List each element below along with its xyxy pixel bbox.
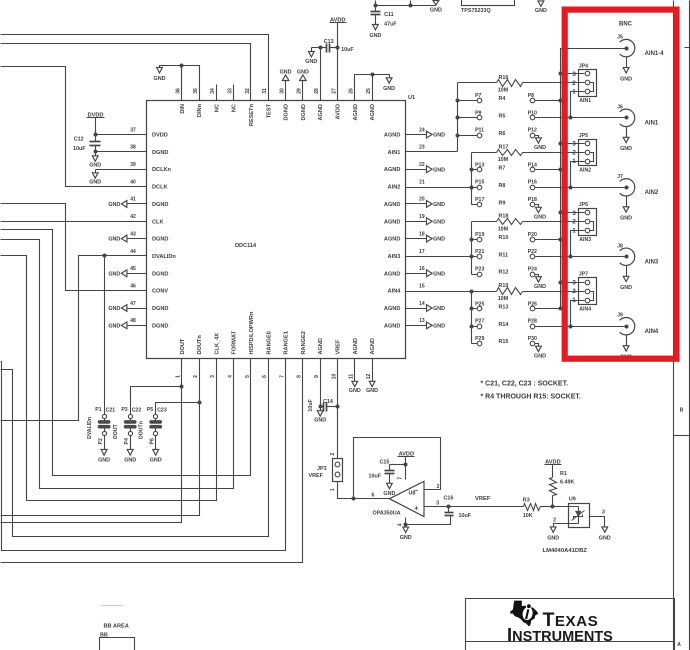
svg-text:GND: GND [620,216,632,222]
node JP pin1 join [569,116,573,120]
wire DOUT branch to P3 [131,387,182,415]
svg-text:DCLKn: DCLKn [152,167,172,173]
power net AVDD at pin 27 [330,17,347,100]
svg-text:35: 35 [193,88,199,94]
svg-text:DOUTn: DOUTn [197,335,203,355]
svg-text:AGND: AGND [384,271,400,277]
svg-text:10uF: 10uF [369,473,382,479]
resistor R7 socket label [499,166,506,172]
wire AIN1 pin 23 to divider [406,151,458,153]
wire C16 bottom to pin4 [406,519,451,525]
svg-text:AIN1: AIN1 [645,121,659,127]
ground C15 [383,483,395,497]
svg-text:47: 47 [130,301,136,307]
wire JP7 pin3 to bus [561,282,585,284]
resistor R19 10M [472,283,585,302]
ground J7 [620,197,632,222]
svg-text:18: 18 [419,231,425,237]
svg-text:DGND: DGND [152,306,168,312]
ground P24 [534,275,546,291]
svg-text:OPA350UA: OPA350UA [373,511,401,517]
svg-text:BNC: BNC [619,22,633,28]
connector P8 [528,93,535,103]
svg-text:R18: R18 [499,214,509,220]
svg-text:GND: GND [620,76,632,82]
node DVALIDn branch P1 [103,254,107,258]
svg-text:U9: U9 [569,497,576,503]
wire P20 to input bus [535,239,561,241]
svg-text:GND: GND [534,354,546,360]
svg-text:GND: GND [108,237,120,243]
node DOUT branch [180,385,184,389]
resistor R8 socket label [499,183,506,189]
svg-text:CLK: CLK [152,219,164,225]
resistor R5 socket label [499,113,506,119]
svg-text:6: 6 [262,375,268,378]
wire pin 28 AGND to C13 [312,48,321,101]
svg-text:29: 29 [297,88,303,94]
svg-text:GND: GND [297,69,309,75]
wire JP4 pin1 to BNC row [571,92,585,118]
svg-text:20: 20 [419,197,425,203]
svg-text:AIN2: AIN2 [645,190,659,196]
svg-text:TPS75233Q: TPS75233Q [461,8,491,14]
svg-text:25: 25 [366,88,372,94]
capacitor C11 47uF [371,6,398,28]
svg-text:DOUT: DOUT [180,338,186,354]
ground U1 right AGND row 5 [406,218,446,226]
svg-text:33: 33 [228,88,234,94]
svg-text:DGND: DGND [152,323,168,329]
svg-text:GND: GND [534,145,546,151]
svg-text:GND: GND [383,491,395,497]
wire HISPD/LOPWRn pin 5 loop [1,230,251,476]
svg-text:39: 39 [130,162,136,168]
svg-text:AIN1: AIN1 [388,150,401,156]
ground J8 [620,266,632,291]
svg-text:DGND: DGND [152,150,168,156]
wire output pin 3 to VREF node [425,501,449,507]
wire P26 to input bus [535,308,561,310]
svg-text:2: 2 [553,518,556,524]
svg-text:J7: J7 [617,174,623,180]
connector P1 / capacitor C21 socket [87,407,115,445]
svg-text:2: 2 [572,219,576,226]
svg-text:GND: GND [599,536,611,542]
node AVDD/C15 [404,463,408,467]
wire U9 pin3 to ground [590,510,606,527]
svg-text:GND: GND [108,323,120,329]
connector P18 [528,197,537,207]
node JP pin1 join [569,255,573,259]
resistor R14 socket label [499,322,509,328]
svg-text:R19: R19 [499,283,509,289]
svg-text:26: 26 [349,88,355,94]
svg-text:1: 1 [572,228,576,235]
svg-text:VREF: VREF [336,339,342,355]
box BB [100,632,135,650]
border zone letter B [680,408,684,414]
svg-text:32: 32 [245,88,251,94]
ground U1 right AGND row 6 [406,235,446,243]
wire AIN1 net vertical [457,83,459,152]
node C13 left [319,46,323,50]
svg-text:47uF: 47uF [384,21,397,27]
svg-text:42: 42 [130,214,136,220]
svg-text:C21: C21 [106,407,116,413]
svg-text:P23: P23 [475,267,484,273]
svg-text:GND: GND [369,33,381,39]
svg-text:AIN3: AIN3 [645,260,659,266]
wire TEST pin 31 to left edge [1,35,269,101]
svg-text:GND: GND [89,179,101,185]
svg-text:10uF: 10uF [73,146,86,152]
svg-text:AIN2: AIN2 [388,185,401,191]
svg-text:2: 2 [572,149,576,156]
ground P12 [534,136,546,152]
svg-text:44: 44 [130,249,136,255]
ground U1 right AGND row 2 [406,166,446,174]
svg-text:GND: GND [400,535,412,541]
resistor R10 socket label [499,235,509,241]
wire JP5 pin1 to BNC row [571,162,585,188]
ground P6 [150,436,162,464]
svg-text:LM4040A41DBZ: LM4040A41DBZ [543,548,588,554]
title block frame [466,599,675,650]
capacitor C15 10uF [369,460,406,484]
wire RANGE0 pin 6 loop [1,359,269,537]
svg-text:19: 19 [419,214,425,220]
svg-text:10uF: 10uF [341,47,354,53]
svg-text:J9: J9 [617,313,623,319]
svg-text:GND: GND [433,219,445,225]
svg-text:VREF: VREF [309,473,324,479]
svg-text:GND: GND [280,69,292,75]
svg-text:FORMAT: FORMAT [232,330,238,354]
wire feedback loop [354,438,441,499]
wire P8 to input bus [535,100,561,102]
label BB AREA [104,624,129,630]
svg-text:GND: GND [433,237,445,243]
pin 34 NC stub [216,85,218,101]
wire JP3 pin1 to opamp [338,482,390,499]
svg-text:R15: R15 [499,339,509,345]
ground pin 11 AGND [349,359,361,394]
wire VREF pin 10 to JP3 [337,359,339,457]
ground pin 29 DGND [297,69,309,100]
svg-text:GND: GND [433,167,445,173]
svg-text:10M: 10M [498,157,509,163]
ground pin 12 AGND [366,359,378,394]
svg-text:RANGE0: RANGE0 [266,331,272,354]
svg-text:C16: C16 [444,496,454,502]
node P9 [456,116,460,120]
svg-text:AGND: AGND [318,104,324,120]
ground U1 right AGND row 10 [406,305,446,313]
svg-text:GND: GND [98,458,110,464]
svg-text:R5: R5 [499,113,506,119]
svg-text:AGND: AGND [384,323,400,329]
svg-text:21: 21 [419,179,425,185]
resistor R17 10M [472,144,585,163]
op-amp U8 OPA350UA [372,481,425,516]
svg-text:R13: R13 [499,304,509,310]
svg-text:16: 16 [419,266,425,272]
note sockets C21-C23 [481,381,569,388]
logo Texas Instruments [507,601,613,646]
svg-text:AGND: AGND [318,338,324,354]
svg-text:10: 10 [331,374,337,380]
svg-text:R12: R12 [499,270,509,276]
ground P18 [534,205,546,221]
resistor R9 socket label [499,200,506,206]
connector P15 [472,180,485,190]
wire JP4 pin3 to bus [561,73,585,75]
svg-text:DINn: DINn [197,103,203,117]
svg-text:3: 3 [602,510,605,516]
wire VREF to R3 [449,496,524,506]
connector P22 [528,249,537,259]
connector J5 BNC AIN1-4 [617,35,664,57]
power net AVDD opamp [398,452,415,465]
svg-text:23: 23 [419,145,425,151]
svg-text:GND: GND [430,7,442,13]
wire DCLKn pin 39 [96,169,147,171]
connector P24 [528,267,537,277]
svg-text:C12: C12 [74,137,84,143]
ground J9 [620,335,632,361]
wire AIN2 net vertical [471,153,473,205]
svg-text:AIN1-4: AIN1-4 [645,51,665,57]
svg-text:36: 36 [176,88,182,94]
svg-text:GND: GND [383,86,395,92]
wire AIN3 pin 17 to divider [406,256,472,258]
svg-text:U1: U1 [408,95,415,101]
node C11 tap [374,4,378,8]
svg-text:DOUT: DOUT [113,423,119,439]
ground pin 43 DGND [108,235,146,243]
svg-text:1: 1 [330,488,336,491]
ground C11 [369,25,381,40]
svg-text:10uF: 10uF [308,399,314,412]
wire DVDD to pin 37 [96,134,147,136]
svg-text:J8: J8 [617,243,623,249]
node JP pin1 join [569,186,573,190]
svg-text:GND: GND [108,202,120,208]
svg-text:37: 37 [130,127,136,133]
svg-text:A: A [677,642,681,648]
svg-text:R7: R7 [499,166,506,172]
shunt reference U9 LM4040A41DBZ [553,497,590,528]
wire RESETn pin 32 to left edge [1,44,251,101]
svg-text:6.49K: 6.49K [560,480,574,486]
U1 pin name labels [152,103,401,354]
svg-text:C22: C22 [132,407,142,413]
svg-text:3: 3 [436,501,439,507]
svg-text:AGND: AGND [353,104,359,120]
wire AIN4 net vertical [471,292,473,344]
svg-text:GND: GND [108,306,120,312]
svg-text:P5: P5 [147,407,153,413]
svg-text:AGND: AGND [384,133,400,139]
svg-text:GND: GND [534,215,546,221]
U1 pin numbers [130,88,425,379]
svg-text:R10: R10 [499,235,509,241]
svg-text:JP7: JP7 [579,272,588,278]
capacitor C12 10uF [73,135,101,152]
svg-text:10M: 10M [498,227,509,233]
ground C13 left [305,48,317,66]
svg-text:GND: GND [366,388,378,394]
page border right [674,1,690,650]
resistor R1 6.49K [550,471,575,506]
node C13 right / AVDD [336,46,340,50]
node pin38 [94,150,98,154]
wire DCLK pin 40 to left edge [1,67,147,187]
svg-text:R8: R8 [499,183,506,189]
op IC U1 DDC114 body [147,95,416,359]
svg-text:GND: GND [154,76,166,82]
wire pin 9 AGND to C14 [320,359,322,407]
wire AIN4 pin 15 to divider [406,291,472,293]
node AIN4 R19 junction [470,290,474,294]
svg-text:DOUTn: DOUTn [139,421,145,439]
wire AIN2 pin 21 to divider [406,187,472,189]
svg-text:48: 48 [130,318,136,324]
svg-text:34: 34 [210,88,216,94]
svg-text:3: 3 [572,71,576,78]
wire CLK_4X pin 3 loop [1,256,217,501]
svg-text:3: 3 [210,375,216,378]
wire DGND pin 38 [96,151,147,153]
ground P4 [124,436,136,464]
svg-text:NC: NC [214,104,220,112]
svg-text:GND: GND [433,271,445,277]
svg-text:AGND: AGND [384,219,400,225]
svg-text:10M: 10M [498,88,509,94]
svg-text:R11: R11 [499,252,509,258]
connector P19 [472,232,485,242]
node C14 left [319,405,323,409]
capacitor C13 10uF [321,39,355,53]
svg-text:J5: J5 [617,35,623,41]
svg-text:28: 28 [314,88,320,94]
label pin 2 inverting [437,484,440,490]
svg-text:2: 2 [437,484,440,490]
svg-text:P1: P1 [95,407,101,413]
svg-text:R9: R9 [499,200,506,206]
node P11 [456,134,460,138]
svg-text:TEST: TEST [266,103,272,118]
ground DCLKn [89,170,101,186]
node P7 [456,99,460,103]
svg-text:30: 30 [279,88,285,94]
node rail [409,4,413,8]
svg-text:DCLK: DCLK [152,185,168,191]
wire DVALIDn pin 44 [1,256,147,421]
connector P21 [472,249,485,259]
svg-text:R16: R16 [499,75,509,81]
svg-text:4: 4 [397,523,403,526]
svg-text:P2: P2 [98,438,104,444]
svg-text:GND: GND [433,323,445,329]
ground pin 30 DGND [280,69,292,100]
svg-text:15: 15 [419,283,425,289]
node bus P14 [559,168,563,172]
svg-text:4: 4 [228,375,234,378]
wire JP5 pin3 to bus [561,143,585,145]
svg-text:GND: GND [547,536,559,542]
svg-text:45: 45 [130,266,136,272]
power net DVDD label [87,113,105,135]
regulator U10 TPS75233Q body [461,0,515,14]
node C14 right on VREF [336,405,340,409]
connector P16 [528,180,537,190]
connector J8 BNC AIN3 [617,243,659,265]
connector P11 [458,128,485,138]
svg-text:AGND: AGND [384,306,400,312]
svg-text:R3: R3 [523,498,530,504]
svg-text:P24: P24 [528,267,537,273]
wire AIN3 net vertical [471,222,473,275]
svg-text:DVDD: DVDD [152,133,168,139]
svg-text:* C21, C22, C23 : SOCKET.: * C21, C22, C23 : SOCKET. [481,381,569,388]
ground C12 [89,152,101,169]
node pin37/C12 [94,133,98,137]
border zone tick mid [674,435,690,437]
capacitor C16 10uF [444,496,472,520]
connector P25 [472,301,485,311]
ground DIN/DINn [154,68,166,82]
svg-text:C13: C13 [324,39,334,45]
node DIN [180,64,184,68]
resistor R15 socket label [499,339,509,345]
node JP pin1 join [569,325,573,329]
svg-text:31: 31 [262,88,268,94]
wire pin 7 supply [397,465,405,480]
resistor R12 socket label [499,270,509,276]
svg-text:JP5: JP5 [579,133,588,139]
svg-text:AIN2: AIN2 [579,167,591,173]
wire DVALIDn to P1 [104,256,106,415]
wire DIN DINn tie [160,66,200,101]
svg-text:DDC114: DDC114 [235,243,257,249]
svg-text:GND: GND [124,458,136,464]
connector P26 [528,301,537,311]
connector P7 [458,93,482,103]
svg-text:24: 24 [419,127,425,133]
resistor R13 socket label [499,304,509,310]
svg-text:7: 7 [397,477,403,480]
connector JP4 AIN1 [572,63,596,104]
ground pin 41 DGND [108,201,146,209]
ground pins 26 25 AGND [355,75,396,101]
svg-text:43: 43 [130,231,136,237]
svg-text:BB AREA: BB AREA [104,624,129,630]
resistor R18 10M [472,214,585,233]
wire CLK pin 42 to left edge [1,221,147,223]
resistor R16 10M [458,75,585,94]
svg-text:RESETn: RESETn [249,103,255,126]
svg-text:AGND: AGND [384,167,400,173]
svg-text:GND: GND [89,162,101,168]
svg-text:C14: C14 [323,399,333,405]
connector P9 [458,110,482,120]
svg-text:AIN1: AIN1 [579,98,591,104]
svg-text:HISPD/LOPWRn: HISPD/LOPWRn [249,311,255,354]
svg-text:RANGE2: RANGE2 [301,331,307,354]
ground J5 [620,57,632,83]
